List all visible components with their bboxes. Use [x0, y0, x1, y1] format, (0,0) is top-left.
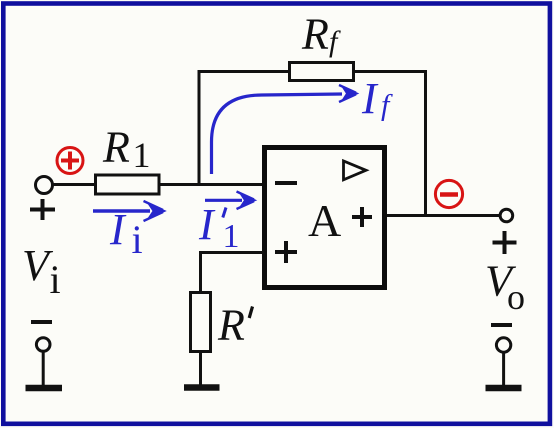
svg-text:I: I — [361, 74, 379, 123]
left ground terminal circle — [36, 338, 50, 352]
label R1 — [102, 123, 151, 176]
wire: feedback top left segment — [198, 70, 291, 73]
node: output terminal circle — [500, 209, 513, 222]
op-amp minus input sign — [275, 181, 297, 185]
polarity marker plus (red) at input — [57, 148, 83, 174]
ground right — [486, 385, 522, 392]
wire: R1 to op-amp inverting input — [159, 183, 264, 186]
plus sign at Vi source — [30, 199, 55, 220]
wire: feedback top right segment — [353, 70, 427, 73]
current arrow I'1 (blue) — [205, 199, 242, 202]
svg-text:A: A — [308, 195, 341, 246]
polarity marker minus (red) at output — [435, 180, 462, 207]
label Vo — [485, 257, 525, 318]
wire: input terminal to R1 — [52, 183, 96, 186]
svg-text:R: R — [301, 10, 329, 59]
svg-text:R: R — [217, 301, 245, 350]
label Vi — [22, 241, 61, 302]
current arrow If (blue curved) — [212, 94, 343, 174]
op-amp output plus sign — [352, 207, 372, 227]
minus sign above right ground — [491, 323, 512, 327]
label If (blue) — [361, 74, 393, 123]
op-amp triangle symbol — [344, 161, 367, 180]
arrowhead Ii — [144, 201, 166, 221]
label Rf — [301, 10, 341, 59]
arrowhead I'1 — [237, 192, 257, 210]
wire: op-amp noninverting input to R' — [201, 253, 265, 293]
svg-text:I: I — [109, 205, 127, 254]
wire: left ground stem — [42, 351, 45, 385]
svg-text:o: o — [507, 277, 525, 317]
wire: op-amp output — [387, 214, 499, 217]
resistor Rf — [290, 63, 354, 81]
arrowhead If — [339, 85, 358, 102]
ground left — [26, 385, 63, 392]
svg-text:1: 1 — [223, 218, 240, 255]
op-amp plus input sign — [275, 241, 297, 263]
wire: right ground stem — [502, 352, 505, 385]
minus sign above left ground — [31, 320, 52, 324]
plus sign at Vo — [493, 231, 517, 254]
ground under R' — [184, 384, 220, 391]
wire: feedback vertical right — [424, 70, 427, 216]
right ground terminal circle — [496, 338, 510, 352]
svg-text:I: I — [198, 200, 216, 249]
wire: R' to ground — [199, 352, 202, 385]
label I'1 (blue) — [198, 200, 240, 255]
svg-text:1: 1 — [133, 135, 151, 175]
op-amp U1 box — [265, 148, 385, 288]
label R' — [217, 301, 253, 350]
svg-text:i: i — [50, 257, 61, 302]
wire: feedback vertical left — [198, 70, 201, 184]
svg-text:i: i — [132, 217, 143, 262]
current arrow Ii (blue) — [93, 209, 150, 212]
resistor R1 — [96, 175, 160, 194]
resistor R' — [191, 293, 211, 352]
svg-text:R: R — [102, 123, 130, 172]
op-amp gain label A — [308, 195, 341, 246]
node: input terminal circle — [36, 177, 53, 194]
label Ii (blue) — [109, 205, 143, 262]
